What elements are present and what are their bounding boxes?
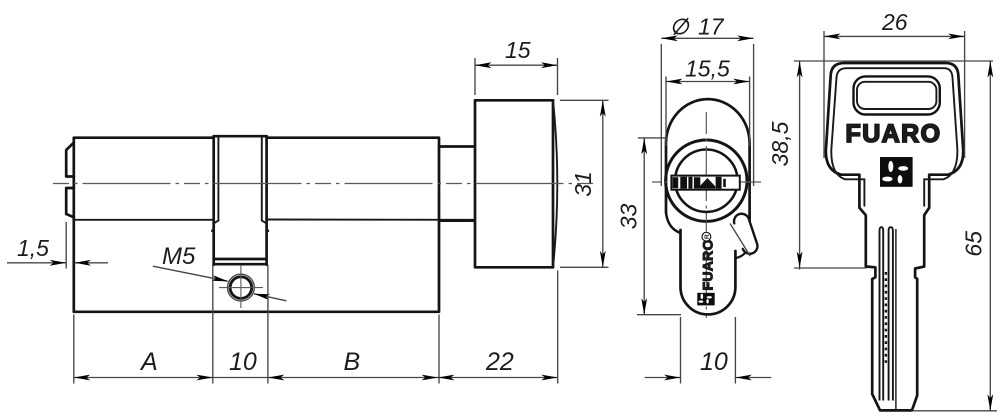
svg-text:10: 10 (700, 348, 728, 376)
dimension 33 (616, 138, 682, 315)
svg-text:31: 31 (570, 171, 596, 197)
svg-text:R: R (704, 234, 711, 239)
thumbturn arch silhouette (666, 99, 750, 221)
key head window (hole) (854, 76, 940, 114)
svg-text:B: B (344, 348, 361, 376)
svg-text:1,5: 1,5 (17, 235, 49, 261)
svg-text:FUARO: FUARO (700, 239, 716, 290)
barrel/spine silhouette line right (267, 219, 475, 221)
M5 leader line with arrows (153, 266, 287, 301)
svg-text:15: 15 (505, 37, 531, 63)
svg-text:10: 10 (229, 348, 257, 376)
svg-text:17: 17 (698, 14, 725, 40)
svg-text:26: 26 (881, 9, 908, 35)
keyway slot with key profile (671, 176, 739, 190)
dimension 1,5 (7, 222, 108, 269)
cam tab bottom (left end) (66, 188, 74, 217)
FUARO text on key head (846, 120, 942, 148)
FUARO brand text on spine (rotated) (700, 239, 716, 290)
svg-text:65: 65 (961, 231, 987, 257)
svg-text:22: 22 (485, 348, 514, 376)
svg-text:A: A (139, 348, 158, 376)
svg-text:38,5: 38,5 (767, 121, 793, 166)
registered trademark symbol on spine (702, 232, 711, 241)
dimension 31 (knob height) (560, 100, 609, 267)
dimension diameter 17 (661, 14, 753, 187)
thumbturn knob (475, 100, 557, 267)
cylinder body outline (74, 138, 439, 312)
main axis centerline (53, 183, 597, 185)
shared extension line (key top) (794, 60, 993, 62)
face ring outer circle (666, 140, 747, 221)
key head inner outline (831, 68, 957, 206)
M5 label (162, 243, 196, 270)
screw hole centerlines (219, 265, 263, 308)
key blade cut dashes (885, 272, 887, 364)
bottom dimension chain A / 10 / B / 22 (74, 265, 558, 384)
dimension 26 (key head width) (824, 9, 965, 158)
svg-text:33: 33 (616, 204, 642, 230)
cam tab top (left end) (66, 143, 74, 177)
plug circle (675, 150, 737, 212)
dimension 15,5 (666, 56, 750, 147)
key head outline (826, 63, 963, 410)
middle bridge block (212, 136, 269, 265)
arch-to-spine fillet left (666, 213, 681, 234)
dimension 15 (knob width) (475, 37, 558, 95)
M5 screw hole (228, 274, 255, 301)
dimension 38,5 (767, 61, 867, 270)
thumbturn stem (439, 147, 475, 221)
svg-text:15,5: 15,5 (685, 56, 730, 82)
svg-text:M5: M5 (162, 243, 196, 270)
spine (profile body) (681, 230, 736, 314)
dimension 65 (key length) (913, 61, 997, 411)
square logo on key head (880, 157, 913, 187)
key blade grooves (880, 227, 896, 409)
barrel/spine silhouette line left (74, 219, 214, 221)
square logo on spine (697, 293, 714, 306)
svg-text:FUARO: FUARO (846, 120, 942, 148)
front view centerlines (652, 112, 761, 318)
dimension 10 (spine width) (645, 317, 772, 384)
cam spade fin (730, 214, 757, 258)
